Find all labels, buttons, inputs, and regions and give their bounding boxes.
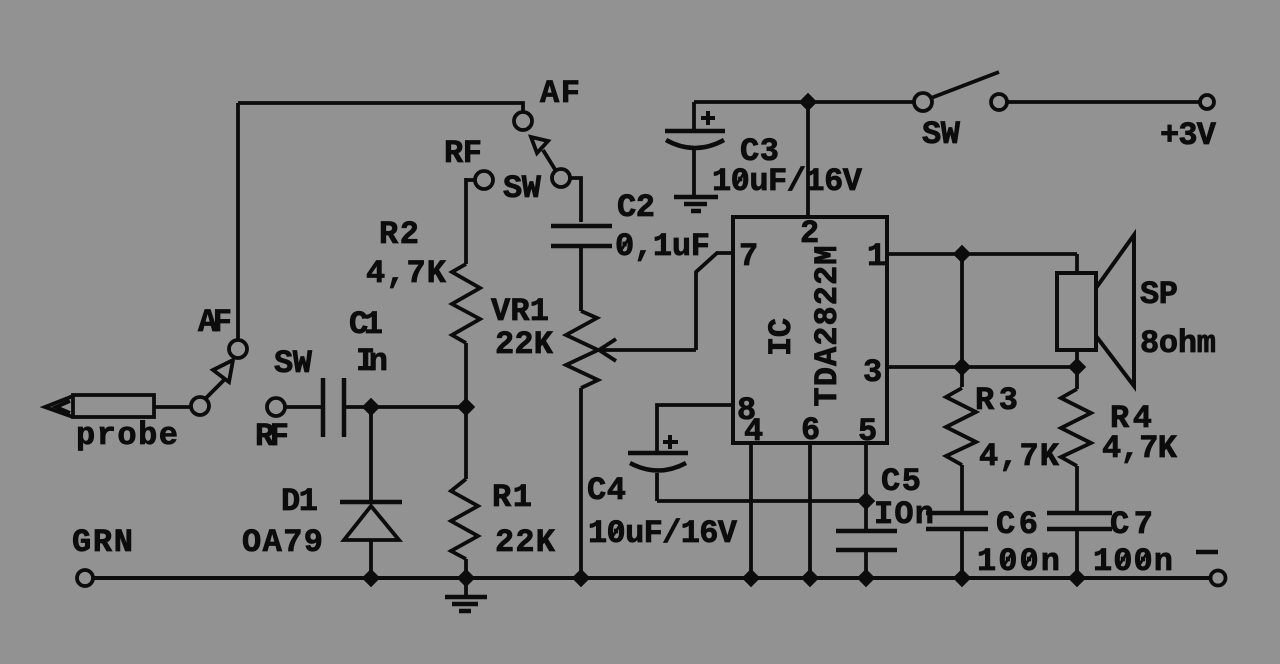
node junction rail C6 [953,569,971,587]
svg-text:4: 4 [744,413,763,450]
label C5 [881,463,921,500]
wire left vertical to AF switch [236,103,240,340]
capacitor C4 [628,451,688,456]
label pin 7 [739,238,758,275]
svg-text:probe: probe [76,417,178,454]
node junction rail R1 [457,569,475,587]
svg-text:R1: R1 [492,479,532,516]
label C4 [587,472,626,509]
wire R2 bottom [464,343,468,407]
label pin 5 [858,413,877,450]
ground under R1 [464,578,468,595]
VR1 wiper arrow [602,348,696,352]
svg-text:D1: D1 [281,483,318,520]
label R1 value 22K [495,524,556,561]
svg-text:R3: R3 [975,382,1018,419]
svg-text:10uF/16V: 10uF/16V [712,163,863,200]
label pin 3 [863,354,882,391]
svg-text:TDA2822M: TDA2822M [809,246,846,407]
wire pin8 [657,405,733,452]
label C5 value IOn [874,496,934,533]
node junction speaker bottom [1068,358,1086,376]
wire top-left horizontal [238,103,523,112]
svg-text:VR1: VR1 [491,293,549,330]
label RF top [444,135,482,172]
label VR1 value 22K [495,326,554,363]
label D1 value OA79 [242,524,323,561]
svg-text:GRN: GRN [72,524,133,561]
svg-text:4,7K: 4,7K [366,255,447,292]
svg-text:C5: C5 [881,463,921,500]
label R4 [1110,400,1152,437]
wire wiper to pin7 [696,253,733,350]
node RF contact circle left [267,398,285,416]
svg-text:4,7K: 4,7K [979,438,1060,475]
C3 plus sign [701,116,715,120]
svg-text:100n: 100n [977,543,1060,580]
svg-text:1: 1 [867,238,886,275]
node junction R1 top [457,398,475,416]
wire RF stub [466,178,475,182]
label AF top [540,75,580,112]
node junction rail pin4 [742,569,760,587]
svg-text:AF: AF [540,75,580,112]
label SW top [503,170,542,207]
svg-text:IC: IC [763,318,800,356]
svg-text:3: 3 [863,354,882,391]
label C2 value 0,1uF [615,228,710,265]
probe tip [45,396,73,417]
capacitor C7 [1047,511,1112,516]
svg-text:22K: 22K [495,524,556,561]
label SW power [922,116,961,153]
svg-text:100n: 100n [1093,543,1173,580]
resistor R2 [452,264,480,343]
potentiometer VR1 [566,311,598,388]
label C2 [617,189,655,226]
svg-text:SP: SP [1140,276,1178,313]
node junction rail VR1 [572,569,590,587]
svg-text:C4: C4 [587,472,626,509]
svg-text:AF: AF [198,304,232,341]
svg-text:IOn: IOn [874,496,934,533]
node junction D1 top [362,398,380,416]
wire ground rail [93,576,1211,580]
label RF left [255,418,289,455]
label C3 [740,133,779,170]
capacitor C1 [321,378,326,437]
capacitor C3 [692,102,696,129]
svg-text:22K: 22K [495,326,554,363]
node junction rail C5 [857,569,875,587]
node junction rail C7 [1068,569,1086,587]
node AF contact circle top [514,112,532,130]
label SW left [274,345,313,382]
wire pin1 to speaker [1075,254,1079,273]
svg-text:C6: C6 [996,506,1038,543]
C4 plus sign [663,440,678,444]
label SP [1140,276,1178,313]
ground under C3 [674,195,718,200]
wire pin1 [887,252,1077,256]
label probe [76,417,178,454]
wire pin2 [806,102,810,217]
label pin 8 [737,392,756,429]
node junction rail D1 [362,569,380,587]
label R4 value 4,7K [1102,430,1178,467]
resistor R1 [464,407,468,479]
wire pole to C2 [570,178,581,222]
svg-text:C2: C2 [617,189,655,226]
node pole circle top switch [552,169,570,187]
label pin 4 [744,413,763,450]
label C4 value 10uF/16V [588,515,738,552]
wire pin6 [808,443,812,578]
label R2 value 4,7K [366,255,447,292]
label C3 value 10uF/16V [712,163,863,200]
label pin 1 [867,238,886,275]
node junction C5 top [857,492,875,510]
wire C2 to VR1 [579,248,583,311]
svg-text:SW: SW [922,116,961,153]
wire pin5 [864,443,868,501]
wire feedback vertical [960,254,964,367]
label R1 [492,479,532,516]
label C6 [996,506,1038,543]
label C1 value In [356,343,388,380]
svg-text:C7: C7 [1110,506,1153,543]
svg-text:In: In [356,343,388,380]
svg-text:0,1uF: 0,1uF [615,228,710,265]
node switch circle right [991,94,1007,110]
label AF left [198,304,232,341]
diode D1 [369,407,373,500]
wire C1 to node [346,405,466,409]
svg-text:SW: SW [274,345,313,382]
node pole circle left switch [191,397,209,415]
label pin 2 [800,215,819,252]
capacitor C2 [551,224,612,229]
label C1 [349,306,383,343]
label R3 value 4,7K [979,438,1060,475]
svg-text:C1: C1 [349,306,383,343]
svg-text:10uF/16V: 10uF/16V [588,515,738,552]
label pin 6 [801,412,820,449]
label SP value 8ohm [1140,325,1216,362]
node switch circle left [914,93,932,111]
label VR1 [491,293,549,330]
switch lever arrow top [531,137,548,153]
wire pin4 [749,443,753,578]
probe body [73,395,154,417]
switch lever arrow left [213,360,233,382]
node junction pin1 [953,245,971,263]
svg-text:7: 7 [739,238,758,275]
svg-text:+3V: +3V [1160,117,1217,154]
resistor R3 [960,367,964,387]
svg-text:OA79: OA79 [242,524,323,561]
wire to +3V [1007,100,1200,104]
label IC rotated [763,318,800,356]
label +3V [1160,117,1217,154]
node RF contact circle [475,171,493,189]
label GRN [72,524,133,561]
slashed zeros decoration [611,173,1147,567]
svg-text:4,7K: 4,7K [1102,430,1178,467]
node junction rail pin6 [801,569,819,587]
wire top rail [694,100,914,104]
svg-text:2: 2 [800,215,819,252]
label R3 [975,382,1018,419]
resistor R4 [1075,367,1079,389]
label C7 value 100n [1093,543,1173,580]
svg-text:R2: R2 [379,216,419,253]
wire C4 to C5 [657,499,866,503]
op-amp IC TDA2822M box [733,217,887,443]
label R2 [379,216,419,253]
label C7 [1110,506,1153,543]
capacitor C6 [926,511,988,516]
label C6 value 100n [977,543,1060,580]
label D1 [281,483,318,520]
wire RF to C1 [285,405,322,409]
svg-text:8ohm: 8ohm [1140,325,1216,362]
svg-text:RF: RF [255,418,289,455]
node minus terminal [1211,571,1226,586]
capacitor C5 [864,501,868,531]
label TDA2822M rotated [809,246,846,407]
speaker SP [1057,273,1096,350]
node AF contact circle left [229,340,247,358]
wire VR1 bottom [579,388,583,578]
svg-text:SW: SW [503,170,542,207]
node +3V terminal [1200,95,1214,109]
node junction pin3 R3 [953,358,971,376]
wire pin3 [887,365,1077,369]
svg-text:RF: RF [444,135,482,172]
wire probe to pole [154,405,191,409]
node GRN terminal [77,570,93,586]
node junction pin2 [799,93,817,111]
wire R2 top [464,178,468,264]
switch lever power [931,72,999,98]
label minus [1196,550,1218,555]
